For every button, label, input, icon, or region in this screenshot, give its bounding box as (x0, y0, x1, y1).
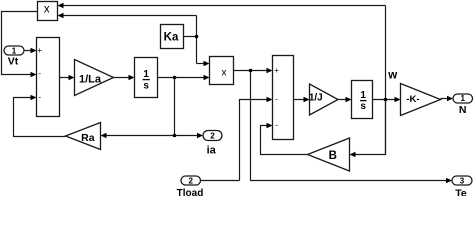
wire 1/J to 1/s2 (338, 99, 348, 101)
output port 2 (ia) (203, 131, 222, 157)
wire Ka vertical (196, 16, 198, 64)
wire Ka branch to product2 input1 (197, 63, 207, 65)
wire sum2 output to 1/J (294, 99, 307, 101)
junction dot product2 output (249, 69, 253, 73)
arrow into ia port (197, 133, 203, 139)
wire Ka output (184, 36, 197, 38)
svg-text:Tload: Tload (177, 188, 204, 196)
sum block S2 (273, 56, 294, 140)
wire w top feedback to product1 input1 (61, 5, 386, 7)
arrow into sum1 input3 (31, 95, 37, 101)
junction dot w (384, 98, 388, 102)
svg-text:-: - (275, 120, 278, 129)
arrow into Ra gain (left) (101, 133, 107, 139)
junction dot 1/s output (173, 76, 177, 80)
wire B output to sum2 input3 (261, 126, 308, 155)
svg-text:1/J: 1/J (309, 92, 323, 103)
svg-text:Ra: Ra (81, 132, 95, 144)
gain 1/La (75, 60, 114, 96)
gain Ra (left pointing) (66, 123, 101, 150)
junction dot ia branch (173, 134, 177, 138)
svg-text:+: + (37, 46, 42, 55)
wire 1/s2 output to -K- (373, 99, 398, 101)
svg-text:w: w (387, 70, 397, 82)
arrow into Ta port (446, 178, 452, 184)
gain -K- (401, 84, 441, 116)
arrow into sum1 input2 (31, 72, 37, 78)
svg-text:-: - (38, 69, 41, 78)
junction dot Ka output (195, 35, 199, 39)
svg-text:1: 1 (143, 69, 149, 80)
arrow into sum2 input2 (267, 97, 273, 103)
svg-text:ia: ia (207, 144, 217, 156)
svg-text:1: 1 (360, 90, 366, 101)
svg-text:-: - (275, 94, 278, 103)
integrator 1/s (armature current) (135, 58, 158, 98)
arrow into sum2 input3 (267, 123, 273, 129)
constant block Ka (161, 25, 184, 49)
svg-text:s: s (143, 80, 149, 91)
wire sum1 output to 1/La (60, 77, 72, 79)
svg-text:B: B (329, 150, 337, 162)
arrow into N port (447, 96, 453, 102)
svg-text:2: 2 (188, 177, 193, 186)
product block P2 (Ka x ia) (210, 57, 234, 85)
arrow into 1/s2 (346, 97, 352, 103)
wire product1 output to sum1 input2 (2, 12, 38, 75)
arrow into 1/s (129, 75, 135, 81)
svg-text:x: x (44, 4, 50, 16)
arrow into 1/La (69, 75, 75, 81)
arrow into product2 input2 (204, 75, 210, 81)
product block P1 (Ka x w) (38, 2, 58, 21)
output port 1 (N) (453, 94, 473, 116)
svg-text:3: 3 (460, 177, 465, 186)
svg-text:Vt: Vt (8, 56, 19, 68)
wire Vt to sum1 input1 (24, 50, 33, 52)
wire Ka branch to product1 input2 (61, 15, 197, 17)
svg-text:x: x (222, 68, 227, 79)
input port 1 (Vt) (4, 46, 24, 68)
output port 3 (Te) (452, 176, 472, 199)
wire -K- output to N (441, 98, 450, 100)
svg-text:1: 1 (460, 94, 465, 103)
svg-text:-: - (38, 93, 41, 102)
wire Ra output to sum1 input3 (14, 98, 66, 137)
arrow into -K- (395, 97, 401, 103)
wire w down branch to B (353, 100, 386, 155)
wire 1/s to product2 input2 (158, 77, 207, 79)
wire Te tap down and right to Ta (251, 71, 449, 181)
svg-text:s: s (360, 101, 366, 112)
svg-text:2: 2 (210, 132, 215, 141)
wire 1/La to 1/s (114, 77, 132, 79)
svg-text:Ka: Ka (164, 31, 179, 43)
svg-text:1: 1 (12, 47, 17, 56)
wire Tload horizontal (201, 180, 240, 182)
svg-text:N: N (459, 104, 467, 116)
arrowheads (31, 3, 454, 184)
arrow into sum1 input1 (31, 48, 37, 54)
integrator 1/s (speed) (352, 81, 373, 119)
input port 2 (Tload) (177, 176, 204, 199)
arrow into product2 input1 (204, 61, 210, 67)
svg-text:+: + (274, 66, 279, 75)
wire product2 output to sum2 input1 (234, 70, 270, 72)
gain B (left pointing) (308, 138, 350, 171)
sum block S1 (37, 38, 60, 117)
arrow into sum2 input1 (267, 68, 273, 74)
wire w feedback vertical (385, 6, 387, 155)
arrow into B gain (left) (350, 152, 356, 158)
svg-text:-K-: -K- (406, 94, 419, 105)
arrow into 1/J (304, 97, 310, 103)
wire ia branch down (174, 78, 176, 136)
arrow into product1 input2 (left) (58, 13, 64, 19)
svg-text:Te: Te (455, 187, 467, 196)
svg-text:1/La: 1/La (79, 74, 102, 86)
gain 1/J (309, 84, 338, 115)
wire Tload riser to sum2 input2 (240, 100, 270, 181)
arrow into product1 input1 (left) (58, 3, 64, 9)
wire ia branch horizontal (104, 135, 200, 137)
